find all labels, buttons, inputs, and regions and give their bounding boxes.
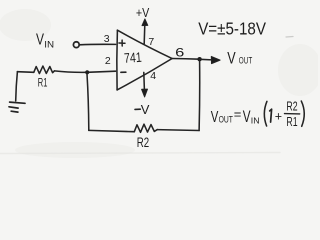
svg-text:3: 3 — [104, 33, 110, 45]
svg-text:V: V — [36, 32, 45, 49]
formula fraction bar — [285, 113, 300, 115]
svg-text:7: 7 — [148, 36, 154, 48]
svg-text:741: 741 — [124, 50, 143, 66]
wire node A to pin 2 — [87, 71, 115, 72]
faint scan streak — [0, 153, 280, 154]
svg-text:V: V — [243, 108, 251, 126]
wire left input node — [17, 71, 33, 74]
-V label — [135, 102, 150, 117]
wire feedback bottom left — [89, 130, 135, 131]
output junction dot — [197, 57, 201, 61]
wire feedback up to output — [198, 61, 201, 130]
svg-text:V: V — [227, 49, 236, 68]
svg-text:2: 2 — [105, 55, 111, 67]
node A junction dot — [85, 70, 89, 74]
wire output — [172, 58, 200, 61]
op-amp U1 741 body — [117, 30, 172, 90]
wire to ground — [16, 72, 18, 101]
svg-text:R2: R2 — [286, 100, 297, 114]
svg-text:R1: R1 — [286, 115, 297, 129]
svg-text:OUT: OUT — [219, 115, 233, 126]
wire R1 to node A — [54, 71, 87, 72]
svg-text:6: 6 — [175, 45, 185, 59]
wire feedback bottom right — [157, 129, 199, 132]
svg-text:+V: +V — [136, 5, 150, 20]
node VIN label — [36, 32, 54, 50]
svg-text:R2: R2 — [137, 134, 150, 150]
input terminal — [73, 42, 79, 48]
svg-text:V: V — [141, 102, 150, 117]
resistor R2 — [134, 124, 157, 132]
svg-text:R1: R1 — [38, 76, 48, 90]
svg-text:+: + — [275, 109, 282, 123]
formula left paren — [264, 101, 267, 126]
ground — [9, 102, 25, 112]
svg-text:4: 4 — [150, 70, 156, 82]
svg-text:IN: IN — [44, 40, 54, 50]
svg-text:IN: IN — [251, 115, 260, 125]
output arrow — [200, 56, 221, 63]
svg-text:OUT: OUT — [239, 56, 253, 67]
wire feedback down from node A — [87, 74, 89, 130]
VOUT label — [227, 49, 252, 68]
svg-text:=: = — [234, 107, 242, 122]
resistor R1 — [34, 66, 55, 74]
faint pen mark — [286, 36, 293, 39]
-V supply arrow — [142, 72, 148, 97]
paper mottle — [0, 9, 320, 158]
wire pin3 input — [79, 43, 115, 45]
formula VOUT = VIN (1 + R2/R1) — [211, 100, 298, 129]
svg-text:V=±5-18V: V=±5-18V — [198, 18, 266, 38]
+V supply arrow — [142, 19, 148, 44]
formula right paren — [301, 101, 304, 126]
